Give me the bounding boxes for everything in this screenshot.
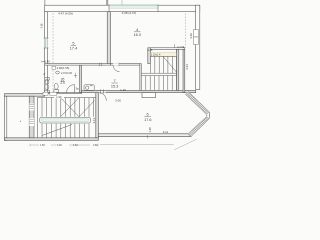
svg-text:2.80: 2.80 [93, 144, 98, 147]
svg-text:17.6: 17.6 [144, 118, 151, 122]
svg-text:4.38: 4.38 [40, 23, 43, 28]
svg-text:1.16: 1.16 [120, 88, 126, 92]
svg-text:4.45: 4.45 [147, 48, 153, 52]
svg-text:2.90(1.55): 2.90(1.55) [57, 66, 70, 70]
svg-text:4: 4 [136, 28, 138, 32]
svg-text:16.3: 16.3 [134, 33, 141, 37]
svg-text:3.06: 3.06 [115, 99, 121, 103]
svg-text:3а: 3а [75, 87, 79, 91]
svg-text:17.4: 17.4 [70, 47, 77, 51]
svg-text:15.3: 15.3 [111, 84, 118, 88]
svg-text:2.0: 2.0 [60, 81, 65, 85]
svg-text:4.47 (4.59): 4.47 (4.59) [58, 11, 73, 15]
svg-text:1.10x1.4: 1.10x1.4 [151, 54, 161, 57]
svg-text:1.48: 1.48 [148, 127, 152, 133]
svg-text:4.39: 4.39 [189, 33, 193, 39]
svg-text:3.11: 3.11 [163, 130, 169, 134]
svg-text:2-1.04: 2-1.04 [177, 45, 185, 49]
svg-text:7: 7 [114, 79, 116, 83]
svg-text:3.13: 3.13 [92, 117, 96, 123]
svg-text:3.34: 3.34 [185, 64, 189, 70]
svg-text:3.00: 3.00 [57, 144, 62, 147]
svg-text:h=1.40: h=1.40 [42, 59, 51, 63]
svg-text:1.40: 1.40 [56, 95, 62, 99]
svg-text:4.08 (4.47): 4.08 (4.47) [122, 11, 137, 15]
svg-text:2.07x0.90: 2.07x0.90 [61, 72, 73, 75]
svg-text:1.50: 1.50 [40, 144, 45, 147]
svg-text:5: 5 [72, 42, 74, 46]
svg-text:1.64: 1.64 [73, 144, 78, 147]
svg-text:6: 6 [147, 113, 149, 117]
